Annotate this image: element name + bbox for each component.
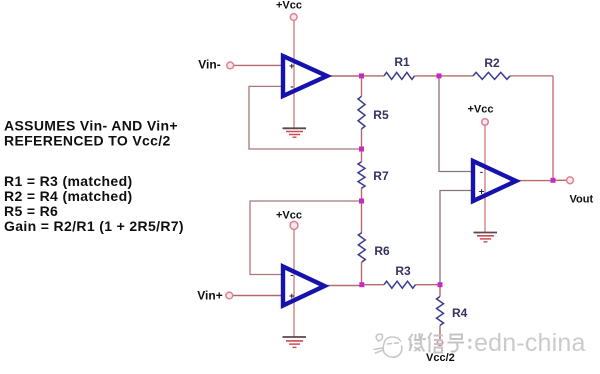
ground (U2) <box>283 337 307 347</box>
svg-text:+: + <box>289 291 295 302</box>
wire U3 output <box>516 180 553 182</box>
svg-text:REFERENCED TO Vcc/2: REFERENCED TO Vcc/2 <box>4 133 171 149</box>
wire node A to R1 <box>362 75 385 77</box>
node C (output node) <box>551 178 556 183</box>
svg-text:R4: R4 <box>452 306 468 320</box>
svg-text:-: - <box>290 270 293 281</box>
svg-text:-: - <box>290 82 293 93</box>
power +Vcc (U1) <box>276 0 302 20</box>
wire U2 feedback loop <box>250 201 362 275</box>
svg-text:R1: R1 <box>394 55 410 69</box>
svg-text:R2: R2 <box>484 56 500 70</box>
node G <box>438 282 443 287</box>
wire node C to Vout terminal <box>553 179 567 181</box>
note text block <box>4 118 184 235</box>
node D <box>359 147 364 152</box>
wire node G up to U3 +in <box>440 191 473 285</box>
resistor R6 <box>358 233 390 262</box>
terminal Vout <box>567 177 594 206</box>
svg-text:R1 = R3 (matched): R1 = R3 (matched) <box>4 173 132 189</box>
node B <box>437 73 442 78</box>
power +Vcc (U3) <box>468 104 494 126</box>
wire Vcc drop U1 <box>293 21 295 129</box>
svg-text:+Vcc: +Vcc <box>468 104 494 116</box>
svg-text:R6: R6 <box>374 244 390 258</box>
op-amp U3 <box>473 161 516 201</box>
node A <box>359 73 364 78</box>
resistor R7 <box>358 162 389 188</box>
wire Vcc drop U2 <box>293 229 295 337</box>
terminal Vin+ <box>197 289 232 303</box>
wire node G to R4 <box>439 285 441 297</box>
svg-text:R2 = R4 (matched): R2 = R4 (matched) <box>4 188 132 204</box>
wire U1 feedback loop <box>249 86 362 149</box>
svg-text:R7: R7 <box>373 169 389 183</box>
wire node A to R5 <box>361 76 363 96</box>
svg-text:+: + <box>289 61 295 72</box>
ground (U1) <box>283 128 307 137</box>
wire R7 to node E <box>361 188 363 201</box>
node F <box>359 282 364 287</box>
power +Vcc (U2) <box>276 210 302 230</box>
wire Vcc drop U3 <box>484 125 486 232</box>
svg-text:R5: R5 <box>373 108 389 122</box>
terminal Vcc/2 <box>426 340 455 364</box>
wire R3 to node G <box>415 284 440 286</box>
wire Vin- to U1 +in <box>234 64 285 66</box>
svg-text:edn-china: edn-china <box>474 329 586 357</box>
svg-text:R3: R3 <box>395 264 411 278</box>
resistor R5 <box>358 96 389 129</box>
wire R4 to Vcc/2 terminal <box>439 325 441 340</box>
ground (U3) <box>474 233 498 242</box>
wire R6 to node F <box>361 262 363 285</box>
wire right vertical R2 to output node C <box>552 76 554 180</box>
resistor R4 <box>437 297 468 326</box>
svg-text:Gain = R2/R1 (1 + 2R5/R7): Gain = R2/R1 (1 + 2R5/R7) <box>4 218 184 234</box>
terminal Vin- <box>198 57 233 71</box>
svg-text:+Vcc: +Vcc <box>276 0 302 12</box>
svg-text:R5 = R6: R5 = R6 <box>4 203 58 219</box>
svg-text:Vout: Vout <box>569 194 593 206</box>
svg-text:Vin+: Vin+ <box>197 289 222 303</box>
wire R2 to top right corner <box>510 75 553 77</box>
svg-text:+Vcc: +Vcc <box>276 210 302 222</box>
svg-text:-: - <box>480 167 483 178</box>
wire node F to R3 <box>362 284 385 286</box>
wire node B down to U3 -in <box>439 76 473 172</box>
wire node D to R7 <box>361 149 363 162</box>
op-amp U1 <box>283 56 327 96</box>
wire node E to R6 <box>361 201 363 233</box>
watermark colon <box>468 339 471 349</box>
resistor R1 <box>384 55 414 80</box>
wire U2 output to node F <box>325 285 362 287</box>
resistor R3 <box>384 264 415 288</box>
watermark icon (cat) <box>374 334 402 357</box>
node E <box>359 199 364 204</box>
svg-text:ASSUMES Vin- AND Vin+: ASSUMES Vin- AND Vin+ <box>4 118 178 134</box>
svg-text:Vcc/2: Vcc/2 <box>426 352 455 364</box>
wire node B to R2 <box>439 75 473 77</box>
resistor R2 <box>473 56 510 80</box>
wire Vin+ to U2 +in <box>233 295 285 297</box>
svg-text:Vin-: Vin- <box>198 57 220 71</box>
watermark text 微信号 <box>409 333 465 353</box>
wire R1 to node B <box>415 75 440 77</box>
wire R5 to node D <box>361 129 363 149</box>
svg-text:+: + <box>479 187 485 198</box>
op-amp U2 <box>283 267 325 306</box>
wire U1 output <box>328 75 362 77</box>
